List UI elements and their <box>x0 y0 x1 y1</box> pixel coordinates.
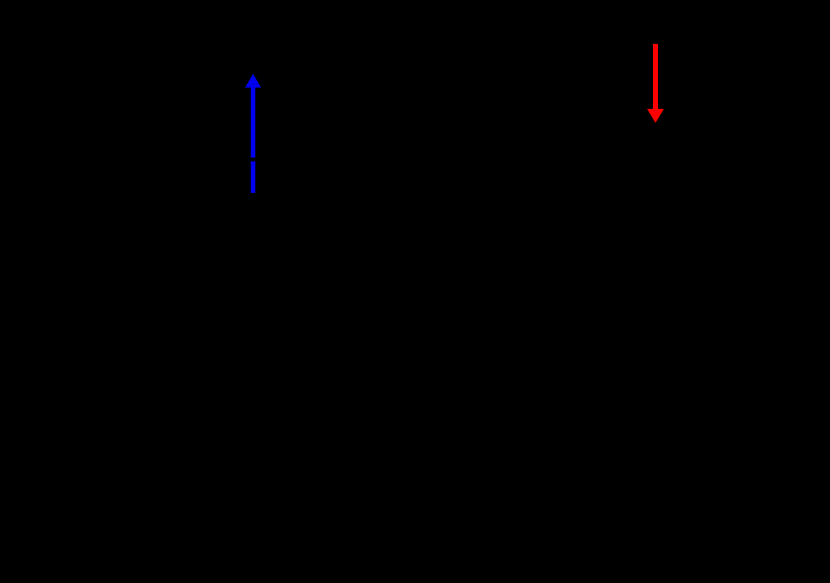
wire middle-right branch (under red arrow) <box>655 230 657 520</box>
svg-text:R1: R1 <box>270 329 293 349</box>
wire left branch <box>149 230 151 520</box>
svg-text:V1: V1 <box>478 364 500 384</box>
current arrow I1 (blue, dashed, pointing up) <box>245 74 261 193</box>
wire top (node A to node B) <box>150 229 750 231</box>
node D <box>250 517 256 523</box>
resistor R2 <box>648 300 696 380</box>
current arrow I2 (red, solid, pointing down) <box>647 44 664 123</box>
node A <box>250 227 256 233</box>
resistor R1 <box>245 300 293 380</box>
ground <box>435 520 465 559</box>
wire middle-left branch (under blue arrow) <box>252 230 254 520</box>
node C <box>653 517 659 523</box>
node B <box>653 227 659 233</box>
wire bottom (node D to node C) <box>150 519 750 521</box>
wire right branch <box>749 230 751 520</box>
svg-text:R2: R2 <box>673 329 696 349</box>
battery V1 <box>430 230 500 520</box>
